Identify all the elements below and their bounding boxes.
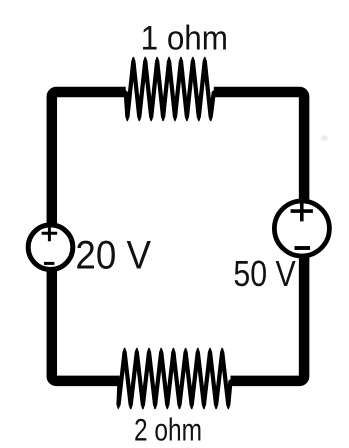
svg-text:1 ohm: 1 ohm (141, 20, 228, 58)
svg-text:20 V: 20 V (75, 233, 151, 277)
faint smudge artifact (0, 0, 1, 1)
svg-text:50 V: 50 V (233, 253, 296, 294)
V2 minus sign (295, 246, 311, 250)
svg-text:2 ohm: 2 ohm (134, 412, 202, 448)
V1 minus sign (44, 262, 54, 265)
resistor R1 (1 ohm, top) (124, 57, 216, 122)
resistor R2 (2 ohm, bottom) (116, 348, 232, 410)
V2 plus sign (291, 202, 313, 222)
voltage source V2 (50 V, right) circle (274, 201, 329, 256)
V1 plus sign (42, 225, 58, 241)
wire left loop (top-left stub, left side, bottom-left stub) (52, 92, 126, 381)
wire right loop (top-right stub, right side, bottom-right stub) (214, 92, 304, 381)
voltage source V1 (20 V, left) circle (28, 225, 73, 270)
